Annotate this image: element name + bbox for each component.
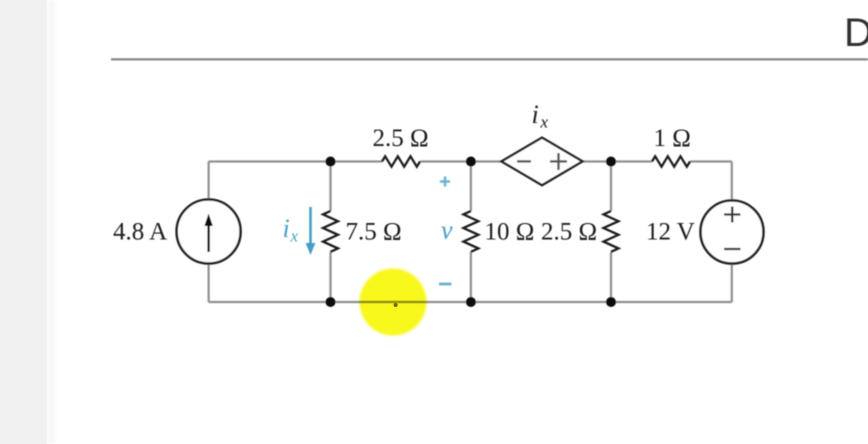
blue plus above v (440, 177, 450, 187)
voltage source minus (724, 248, 741, 250)
diamond minus sign (517, 160, 531, 162)
junction dot top node A (326, 157, 336, 167)
resistor 2.5ohm horizontal zigzag (382, 156, 420, 166)
wire: right branch vertical (731, 162, 733, 303)
svg-text:i: i (532, 100, 539, 129)
resistor 7.5ohm vertical zigzag (323, 211, 338, 252)
svg-text:1 Ω: 1 Ω (654, 125, 691, 152)
resistor 2.5ohm vertical zigzag (604, 211, 619, 252)
junction dot top node C (606, 157, 616, 167)
svg-text:2.5 Ω: 2.5 Ω (373, 125, 429, 152)
junction dot bottom node D2 (466, 297, 476, 307)
wire: top rail segments (209, 162, 732, 303)
blue current arrow down (309, 207, 312, 244)
top horizontal rule (111, 58, 868, 60)
junction dot bottom node D1 (326, 297, 336, 307)
wire top-left segment (209, 160, 382, 162)
svg-text:4.8 A: 4.8 A (113, 219, 167, 246)
svg-text:i: i (283, 214, 290, 243)
svg-text:v: v (441, 216, 453, 245)
junction dot top node B (466, 157, 476, 167)
cursor point in highlight (394, 303, 398, 307)
voltage source V1 circle (701, 201, 764, 264)
current source I1 circle (177, 200, 241, 264)
diamond plus sign (550, 153, 567, 170)
current source arrow (207, 224, 209, 252)
svg-text:x: x (290, 227, 299, 246)
svg-text:12 V: 12 V (646, 219, 695, 246)
svg-text:10 Ω: 10 Ω (485, 219, 535, 246)
wire: bottom rail (209, 301, 732, 303)
wire top-right segment (690, 160, 732, 162)
left gray sidebar strip (0, 0, 47, 444)
wire: node column x=470.9 (470, 162, 472, 303)
voltage source plus (724, 207, 741, 223)
yellow highlight dot (360, 269, 427, 336)
svg-text:2.5 Ω: 2.5 Ω (541, 219, 597, 246)
blue minus below v (439, 283, 452, 286)
wire: node column x=611 (610, 162, 612, 303)
resistor 1ohm horizontal zigzag (652, 156, 690, 166)
resistor 10ohm vertical zigzag (463, 211, 478, 252)
svg-text:x: x (540, 113, 549, 132)
junction dot bottom node D3 (606, 297, 616, 307)
dependent source diamond U1 (502, 138, 583, 186)
svg-text:7.5 Ω: 7.5 Ω (346, 219, 402, 246)
svg-text:D: D (844, 11, 868, 55)
wire: left branch vertical (208, 162, 210, 303)
wire top segment between diamond and node (582, 160, 652, 162)
wire top middle segment between 2.5ohm and diamond (420, 160, 502, 162)
wire: node column x=330.5 (329, 162, 331, 303)
